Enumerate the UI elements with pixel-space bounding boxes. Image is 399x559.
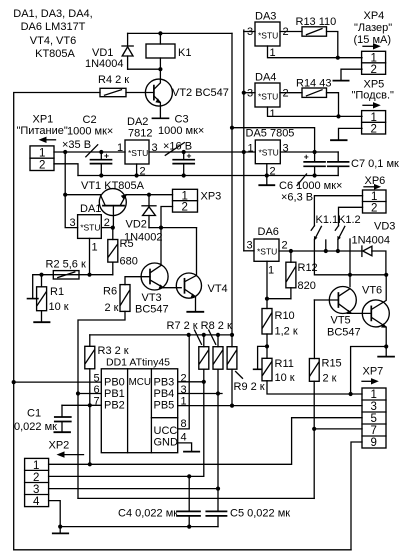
svg-text:3: 3 <box>33 484 39 496</box>
svg-text:×6,3 В: ×6,3 В <box>281 192 313 204</box>
svg-text:XP4: XP4 <box>364 10 385 22</box>
node C2 top <box>99 150 103 154</box>
node DA4.3 <box>242 91 246 95</box>
svg-text:DA1, DA3, DA4,: DA1, DA3, DA4, <box>13 8 92 20</box>
voltage regulator DA4 <box>244 72 302 121</box>
wire DA5 out +5 <box>280 151 338 153</box>
svg-text:1: 1 <box>92 242 98 254</box>
wire R14 right to XP5.1 <box>327 93 339 117</box>
node PB4 <box>216 391 220 395</box>
common bar VT4 emitter <box>187 311 203 313</box>
wire XP1.1 branch down to VT1 collector and DA1.3 <box>65 152 77 228</box>
wire PB5 pin1 to XP7.3 <box>178 405 362 407</box>
wire VT6 emitter to XP7.1 <box>351 347 387 395</box>
svg-text:7: 7 <box>371 425 377 437</box>
svg-text:680: 680 <box>120 256 138 268</box>
node collectors rail VT5 <box>348 273 352 277</box>
diode VD1 1N4004 <box>85 33 133 70</box>
connector XP6 <box>363 175 387 215</box>
svg-text:1: 1 <box>270 108 276 120</box>
svg-text:K1: K1 <box>178 47 191 59</box>
wire C7 bottom to rail <box>315 175 339 177</box>
svg-text:R13 110: R13 110 <box>296 16 337 28</box>
wire R10 bottom node <box>266 334 268 358</box>
svg-text:0,022 мк: 0,022 мк <box>14 421 57 433</box>
wire PB1 net to R15 bottom XP7.7 <box>78 497 314 499</box>
resistor R8 2k <box>209 330 223 369</box>
ground DA5 <box>259 184 274 186</box>
connector XP5 Подсв <box>352 79 395 136</box>
node R12 top <box>289 249 293 253</box>
capacitor C3 1000mk 16V <box>158 114 204 176</box>
svg-text:PB3: PB3 <box>154 377 175 389</box>
wire XP1 pin1 +batt rail to DA2 <box>54 151 125 153</box>
svg-text:DD1 ATtiny45: DD1 ATtiny45 <box>106 357 170 369</box>
node C6 bottom <box>313 173 317 177</box>
svg-text:3: 3 <box>247 88 253 100</box>
resistor R2 5,6k <box>46 259 86 280</box>
svg-text:*STU: *STU <box>259 148 279 158</box>
relay contact K1.2 <box>335 214 360 240</box>
svg-text:DA2: DA2 <box>127 116 148 128</box>
node XP3.2 / VT3 collector <box>159 226 163 230</box>
svg-text:PB0: PB0 <box>104 377 125 389</box>
node VT1 base R5 top <box>111 226 115 230</box>
svg-text:R14 43: R14 43 <box>296 78 331 90</box>
wire PB1 pin6 <box>78 393 101 395</box>
svg-text:2 к: 2 к <box>323 373 337 385</box>
svg-text:R12: R12 <box>298 262 318 274</box>
node R8 top <box>216 333 220 337</box>
svg-text:2: 2 <box>181 373 187 385</box>
wire R11 bottom to XP7.1 line <box>267 381 362 394</box>
wire XP2.4 to ground rail <box>49 501 61 533</box>
svg-text:1: 1 <box>39 147 45 159</box>
node C4 bottom <box>187 525 191 529</box>
wire R7 bottom <box>189 369 204 476</box>
svg-text:PB5: PB5 <box>154 400 175 412</box>
svg-text:1,2 к: 1,2 к <box>275 326 298 338</box>
wire XP2.1 to XP7.5 <box>49 418 362 465</box>
svg-text:1: 1 <box>371 112 377 124</box>
transistor VT3 BC547 <box>135 263 181 316</box>
resistor R12 820 <box>286 251 318 299</box>
wire GND pin4 <box>178 443 192 451</box>
capacitor C2 1000mk 35V <box>62 114 113 176</box>
node top rail K1 junction <box>158 31 162 35</box>
wire PB4 pin3 <box>178 393 222 395</box>
svg-text:C4 0,022 мк: C4 0,022 мк <box>118 508 178 520</box>
svg-text:DA5 7805: DA5 7805 <box>246 128 295 140</box>
svg-text:3: 3 <box>181 384 187 396</box>
svg-text:3: 3 <box>371 401 377 413</box>
ground R1 <box>34 321 49 323</box>
svg-text:PB4: PB4 <box>154 388 175 400</box>
svg-text:1000 мк×: 1000 мк× <box>158 125 204 137</box>
svg-text:VD2: VD2 <box>126 219 147 231</box>
svg-text:1: 1 <box>371 191 377 203</box>
wire VD2 bottom node to VT4 collector branch <box>149 227 197 229</box>
node VD2 top <box>147 193 151 197</box>
node XP1.1 branch <box>63 150 67 154</box>
wire XP7.9 to bottom frame <box>351 442 362 550</box>
wire R15 bottom to PB1 net <box>313 381 315 498</box>
svg-text:820: 820 <box>298 280 316 292</box>
diode VD2 1N4002 <box>124 195 163 244</box>
svg-text:2: 2 <box>33 472 39 484</box>
node XP2.1 <box>88 462 92 466</box>
node R1 top <box>39 273 43 277</box>
svg-text:VT5: VT5 <box>331 315 351 327</box>
resistor R15 2k <box>309 300 341 385</box>
svg-text:2: 2 <box>140 166 146 178</box>
svg-text:+: + <box>104 151 109 161</box>
svg-text:*STU: *STU <box>258 31 278 41</box>
node on left vertical <box>63 193 67 197</box>
svg-text:R7 2 к R8 2 к: R7 2 к R8 2 к <box>167 320 232 332</box>
svg-text:10 к: 10 к <box>275 372 295 384</box>
node XP5.1 <box>336 114 340 118</box>
svg-text:6: 6 <box>94 384 100 396</box>
svg-text:5: 5 <box>371 413 377 425</box>
wire K1.1 lower to collectors rail <box>314 239 386 274</box>
wire bottom ground rail <box>60 526 218 528</box>
svg-text:DA6: DA6 <box>258 226 279 238</box>
wire +5 vertical main <box>231 33 233 405</box>
transistor VT2 BC547 <box>145 69 228 118</box>
svg-text:C3: C3 <box>175 114 189 126</box>
node DA6.1 R12 <box>265 297 269 301</box>
transistor VT1 KT805A <box>81 180 145 228</box>
resistor R11 10k <box>262 358 295 384</box>
svg-text:*STU: *STU <box>257 247 277 257</box>
node +5 riser tap <box>230 126 234 130</box>
svg-text:VD3: VD3 <box>374 221 395 233</box>
svg-text:R10: R10 <box>275 310 295 322</box>
svg-text:VT1 KT805A: VT1 KT805A <box>81 180 145 192</box>
node XP2.3 <box>216 487 220 491</box>
node UCC branch <box>187 333 191 337</box>
svg-text:4: 4 <box>181 432 187 444</box>
wire DA6 pin3 <box>244 250 254 252</box>
svg-text:XP7: XP7 <box>363 366 384 378</box>
svg-text:"Питание": "Питание" <box>17 125 68 137</box>
svg-text:R3 2 к: R3 2 к <box>98 345 129 357</box>
wire R6 bottom to PB1 vertical <box>78 311 125 498</box>
svg-text:1: 1 <box>182 190 188 202</box>
wire XP7.7 line <box>314 428 362 430</box>
resistor R4 <box>98 74 129 97</box>
node XP7.7 branch <box>312 427 316 431</box>
svg-text:DA1: DA1 <box>80 203 101 215</box>
wire VT3 collector <box>160 228 162 266</box>
ground C1 <box>54 431 70 433</box>
connector XP2 <box>25 440 84 509</box>
common bar R2 node <box>28 298 38 300</box>
svg-text:2: 2 <box>39 160 45 172</box>
svg-text:10 к: 10 к <box>49 301 69 313</box>
svg-text:C1: C1 <box>27 408 41 420</box>
svg-text:1N4004: 1N4004 <box>352 235 391 247</box>
svg-text:3: 3 <box>283 143 289 155</box>
svg-text:R9 2 к: R9 2 к <box>234 381 265 393</box>
parts list text block <box>13 8 92 60</box>
node C3 top <box>182 150 186 154</box>
node ground rail left <box>58 525 62 529</box>
svg-text:×35 В: ×35 В <box>62 139 91 151</box>
node XP4.1 <box>336 56 340 60</box>
common bar XP5 <box>331 139 347 141</box>
svg-text:PB2: PB2 <box>104 400 125 412</box>
svg-text:8: 8 <box>181 418 187 430</box>
node R3 bottom PB2 <box>88 403 92 407</box>
resistor R5 680 <box>108 228 138 275</box>
wire PB0 feedback loop frame (left, bottom, top to R4) <box>14 93 351 550</box>
capacitor C7 0,1mk <box>328 152 399 176</box>
resistor R14 43 <box>296 78 331 98</box>
wire XP2.3 PB4 net <box>49 488 218 490</box>
connector XP7 <box>362 366 386 450</box>
connector XP3 <box>173 189 222 213</box>
wire VT4 collector <box>185 228 197 282</box>
svg-text:K1.2: K1.2 <box>338 214 361 226</box>
transistor VT6 <box>362 275 389 347</box>
voltage regulator DA5 7805 <box>246 128 295 178</box>
svg-text:1: 1 <box>268 265 274 277</box>
MCU DD1 ATtiny45 <box>94 357 187 453</box>
svg-text:R15: R15 <box>322 358 342 370</box>
svg-text:2: 2 <box>182 202 188 214</box>
connector XP4 Лазер <box>354 10 393 76</box>
svg-text:1: 1 <box>371 52 377 64</box>
svg-text:2: 2 <box>371 124 377 136</box>
wire DA1 pin1 down <box>89 238 91 274</box>
ground VT6 <box>385 347 387 357</box>
svg-text:K1.1: K1.1 <box>316 214 339 226</box>
resistor R1 10k <box>37 275 69 322</box>
svg-text:1: 1 <box>33 460 39 472</box>
node VT2 collector junction <box>158 67 162 71</box>
transistor VT5 BC547 <box>327 287 371 339</box>
svg-text:R6: R6 <box>103 286 117 298</box>
ground DD1 <box>184 451 199 453</box>
wire top rail VD1 K1 to +5 vertical <box>128 32 232 34</box>
svg-text:C6 1000 мк×: C6 1000 мк× <box>279 180 342 192</box>
wire XP5 pin2 to common bar <box>339 128 363 139</box>
resistor R7 2k <box>195 330 209 369</box>
svg-text:1000 мк×: 1000 мк× <box>67 126 113 138</box>
wire K1.2 fixed stub <box>337 239 339 251</box>
node DA1.1 R2 R5 <box>87 273 91 277</box>
svg-text:9: 9 <box>371 437 377 449</box>
svg-text:VT4, VT6: VT4, VT6 <box>30 35 76 47</box>
wire R2 left to common stub <box>33 275 54 299</box>
transistor VT4 <box>176 273 227 312</box>
svg-text:1: 1 <box>117 142 123 154</box>
node C4 top <box>187 474 191 478</box>
svg-text:7812: 7812 <box>128 128 152 140</box>
wire +12V DA2 out to DA5 in <box>149 151 255 153</box>
svg-text:VT6: VT6 <box>362 285 382 297</box>
wire DA3 pin1 to XP4.1 <box>268 46 363 58</box>
wire R12 bottom to DA6.1 <box>267 298 291 300</box>
svg-text:VT2 BC547: VT2 BC547 <box>172 87 229 99</box>
wire DA5 pin2 to rail and ground <box>266 164 268 185</box>
node C3 bottom on rail <box>182 173 186 177</box>
capacitor C6 1000mk 6.3V <box>279 152 342 204</box>
capacitor C1 0,022mk <box>14 405 71 433</box>
node R7 top <box>202 333 206 337</box>
svg-text:3: 3 <box>247 240 253 252</box>
svg-text:+: + <box>304 152 309 162</box>
wire VD1 bottom to VT2 collector <box>128 68 161 70</box>
svg-text:C5 0,022 мк: C5 0,022 мк <box>230 508 290 520</box>
capacitor C4 0,022mk <box>118 476 200 526</box>
wire PB0 pin5 to frame <box>14 381 102 383</box>
wire DA1 pin2 to VT1 base / R5 <box>101 227 113 229</box>
common bar VT2 emitter <box>152 117 168 119</box>
wire jumper vert to collectors rail <box>349 239 351 287</box>
common bar R10 R11 <box>254 368 262 370</box>
voltage regulator DA3 <box>244 11 302 60</box>
svg-text:2: 2 <box>282 240 288 252</box>
svg-text:MCU: MCU <box>129 377 151 388</box>
node +5 out <box>313 150 317 154</box>
wire R3 net down to XP2.1 <box>89 405 91 464</box>
wire VT1 collector <box>65 194 100 196</box>
svg-text:+: + <box>187 151 192 161</box>
wire XP6.1 to K1.1 upper <box>314 196 362 226</box>
node C2 bottom on rail <box>99 173 103 177</box>
ground XP2.4 <box>53 532 68 534</box>
svg-text:BC547: BC547 <box>327 327 361 339</box>
wire R10 node to common stub <box>258 346 267 369</box>
node collectors rail VT6 VD3 <box>384 273 388 277</box>
svg-text:"Подсв.": "Подсв." <box>352 90 395 102</box>
diode VD3 1N4004 <box>352 221 396 275</box>
svg-text:1N4002: 1N4002 <box>124 232 163 244</box>
svg-text:XP3: XP3 <box>201 191 222 203</box>
common bar XP4 <box>333 80 348 82</box>
svg-text:R2 5,6 к: R2 5,6 к <box>46 259 86 271</box>
node VT6 emitter net on XP7.1 <box>349 392 353 396</box>
relay contact K1.1 <box>311 214 338 240</box>
resistor R3 2k <box>85 335 129 405</box>
capacitor C5 0,022mk <box>206 508 290 527</box>
svg-text:XP2: XP2 <box>49 440 70 452</box>
voltage regulator DA1 <box>70 203 110 254</box>
svg-text:DA6 LM317T: DA6 LM317T <box>21 21 86 33</box>
svg-text:*STU: *STU <box>258 92 278 102</box>
svg-text:DA3: DA3 <box>255 11 276 23</box>
connector XP1 Питание <box>17 114 68 172</box>
svg-text:R11: R11 <box>275 358 294 370</box>
svg-text:*STU: *STU <box>128 148 148 158</box>
node DA2.2 on rail <box>135 173 139 177</box>
wire R4 to VT2 base <box>126 92 154 94</box>
svg-text:1: 1 <box>248 143 254 155</box>
svg-text:2: 2 <box>371 64 377 76</box>
svg-text:*STU: *STU <box>80 223 100 233</box>
svg-text:2: 2 <box>270 166 276 178</box>
wire DA6 pin2 output <box>279 250 362 252</box>
node VT6 emitter ground branch <box>384 344 388 348</box>
wire +5 distribution rail <box>90 334 232 336</box>
svg-text:R1: R1 <box>50 286 64 298</box>
wire DA6 pin1 down <box>266 261 268 308</box>
wire VT1 emitter rail <box>126 194 172 196</box>
wire XP1 pin2 to common rail <box>54 164 78 176</box>
wire XP4 pin2 to common bar <box>341 69 362 80</box>
wire XP2.2 PB3 net <box>49 475 190 477</box>
node PB1 <box>76 391 80 395</box>
wire PB3 pin2 <box>178 381 204 383</box>
wire R13 right to XP4.1 <box>327 32 338 58</box>
relay coil K1 <box>146 33 191 69</box>
wire DA2 pin2 to common rail <box>136 164 138 176</box>
svg-text:1: 1 <box>371 389 377 401</box>
svg-text:PB1: PB1 <box>104 388 125 400</box>
node PB5 R9 <box>230 404 234 408</box>
node R9 top <box>230 333 234 337</box>
svg-text:4: 4 <box>33 496 40 508</box>
resistor R9 2k <box>227 347 265 393</box>
svg-text:(15 мА): (15 мА) <box>354 34 392 46</box>
svg-text:1N4004: 1N4004 <box>85 58 124 70</box>
svg-text:KT805A: KT805A <box>35 48 75 60</box>
wire PB2 pin7 to C1 <box>62 404 101 406</box>
node PB0 frame <box>12 380 16 384</box>
svg-text:VT4: VT4 <box>208 283 228 295</box>
svg-text:UCC: UCC <box>154 425 178 437</box>
svg-text:BC547: BC547 <box>135 304 169 316</box>
wire XP3 pin2 down <box>161 207 173 228</box>
svg-text:XP1: XP1 <box>33 114 54 126</box>
svg-text:2: 2 <box>283 88 289 100</box>
svg-text:GND: GND <box>154 437 179 449</box>
wire R8 bottom through PB4 XP2.3 to C5 <box>217 369 219 511</box>
wire R2 node <box>53 274 113 276</box>
wire XP6.2 to K1.2 upper <box>339 207 363 226</box>
resistor R6 2k <box>103 277 150 314</box>
wire +5 riser to top rail <box>232 128 315 152</box>
svg-text:2: 2 <box>371 203 377 215</box>
node +12 vertical tap <box>242 150 246 154</box>
svg-text:C7 0,1 мк: C7 0,1 мк <box>351 158 399 170</box>
resistor R10 1,2k <box>262 309 298 338</box>
wire DA4 pin1 to XP5.1 <box>268 107 363 116</box>
svg-text:R4 2 к: R4 2 к <box>98 74 129 86</box>
resistor R13 110 <box>296 16 337 36</box>
svg-text:3: 3 <box>70 217 76 229</box>
svg-text:DA4: DA4 <box>255 72 276 84</box>
voltage regulator DA6 <box>247 226 288 277</box>
wire common rail <box>78 175 315 177</box>
svg-text:2 к: 2 к <box>105 302 119 314</box>
node PB3 <box>202 380 206 384</box>
svg-text:"Лазер": "Лазер" <box>354 22 392 34</box>
wire +12 vertical rail <box>243 30 245 251</box>
voltage regulator DA2 7812 <box>117 116 158 178</box>
wire K1.1 fixed stub <box>325 240 327 251</box>
svg-text:VT3: VT3 <box>142 292 162 304</box>
svg-text:C2: C2 <box>83 114 97 126</box>
wire UCC pin8 riser <box>178 335 190 429</box>
